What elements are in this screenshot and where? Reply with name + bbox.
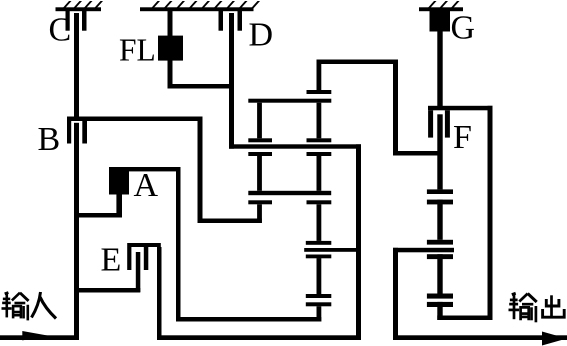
- sun stem r4 down: [317, 204, 322, 241]
- gear plate r6 upper: [306, 294, 332, 298]
- clutch E bracket top span: [127, 243, 161, 247]
- svg-text:D: D: [249, 17, 274, 54]
- wire: shaft from brake D down: [229, 13, 234, 149]
- brake C friction plates: [66, 11, 87, 31]
- wire: clutch F hub shaft down: [437, 114, 442, 320]
- wire: right drum side down to output member: [488, 106, 493, 320]
- clutch E left leg: [127, 247, 131, 270]
- brake D friction plates: [219, 11, 243, 31]
- wire: output member vertical: [393, 248, 398, 340]
- clutch E inner prong: [144, 247, 149, 270]
- stems r2 to ring bar: [257, 156, 321, 191]
- gear plate r1 lower extending to carrier: [248, 99, 331, 103]
- output arrow: [542, 332, 567, 346]
- planet column: sun shaft stem top: [317, 64, 322, 90]
- wire: shaft from brake C down to member B: [74, 13, 79, 119]
- wire: input line: [0, 335, 79, 340]
- sun shaft stem 2: [317, 103, 322, 139]
- ring gear bar (joins both columns): [248, 191, 331, 195]
- input arrow: [22, 331, 49, 340]
- svg-text:FL: FL: [119, 33, 156, 68]
- gear pair on shaft F middle: [427, 240, 453, 259]
- wire: shaft F bottom corner to drum: [437, 316, 492, 321]
- wire: shaft from G down to clutch F: [437, 32, 442, 111]
- member A right leg: [176, 167, 181, 322]
- brake B friction plates: [67, 121, 87, 144]
- one-way clutch FL body: [158, 36, 183, 61]
- gear plate r2 lower pair: [248, 152, 331, 156]
- wire: top elbow link (sun shaft to clutch F hub): [317, 60, 441, 156]
- member A top line: [109, 167, 181, 171]
- carrier stem bottom to member A line: [257, 204, 262, 223]
- member A bottom line to sun stem: [176, 317, 321, 322]
- one-way clutch FL (flywheel element) stem upper: [168, 11, 173, 36]
- gear plate r4 pair: [248, 200, 331, 204]
- svg-text:G: G: [451, 10, 476, 47]
- member B corner down: [198, 117, 203, 224]
- ground hatching right (frame above G): [419, 1, 463, 11]
- member B horizontal: [67, 117, 203, 122]
- gear plate r1 upper: [307, 90, 332, 94]
- input text (shu ru): [2, 292, 57, 320]
- ground hatching left (frame above brake C): [56, 1, 104, 11]
- gear plate r5 lower: [306, 255, 332, 259]
- output text (shu chu): [509, 293, 565, 322]
- wire: FL stem lower: [168, 61, 173, 89]
- wire: shaft B down to input line: [74, 123, 79, 340]
- sun stem r6 to member A line: [317, 306, 322, 321]
- wire: output member link through gear pair: [393, 248, 454, 253]
- wire: FL to shaft D connector: [168, 84, 235, 89]
- gear plate r5 upper: [306, 241, 332, 245]
- ground hatching middle (frame above FL and D): [140, 1, 260, 11]
- svg-text:E: E: [101, 242, 122, 279]
- wire: mid vertical down to output line: [356, 144, 361, 340]
- gear plate r6 lower: [306, 302, 332, 306]
- gear plate r5 middle extending to mid vertical: [304, 248, 361, 252]
- svg-text:B: B: [38, 121, 61, 158]
- gear plate r2 upper pair: [248, 138, 331, 142]
- svg-text:A: A: [134, 167, 159, 204]
- wire: output line: [393, 335, 567, 340]
- sun stem r5 down: [317, 258, 322, 294]
- clutch F friction plates: [428, 110, 450, 137]
- svg-text:F: F: [453, 119, 472, 156]
- member B lower horizontal to carrier: [198, 219, 262, 224]
- one-way clutch A body: [109, 167, 129, 195]
- clutch F drum top bar: [428, 106, 493, 111]
- gear pair on shaft F upper: [427, 189, 453, 204]
- wire: E hub elbow to shaft B: [74, 288, 140, 293]
- svg-text:C: C: [49, 12, 72, 49]
- wire: long horizontal from shaft D through gear column: [229, 144, 361, 148]
- one-way clutch G body: [430, 11, 451, 32]
- clutch E hub bar: [136, 252, 141, 292]
- carrier stem 2: [257, 103, 262, 139]
- wire: E right leg down: [157, 247, 162, 340]
- wire: A elbow to shaft B: [74, 213, 122, 218]
- gear pair on shaft F lower: [427, 294, 453, 308]
- wire: A stem down: [116, 195, 122, 218]
- wire: bottom line E to mid vertical: [157, 335, 361, 340]
